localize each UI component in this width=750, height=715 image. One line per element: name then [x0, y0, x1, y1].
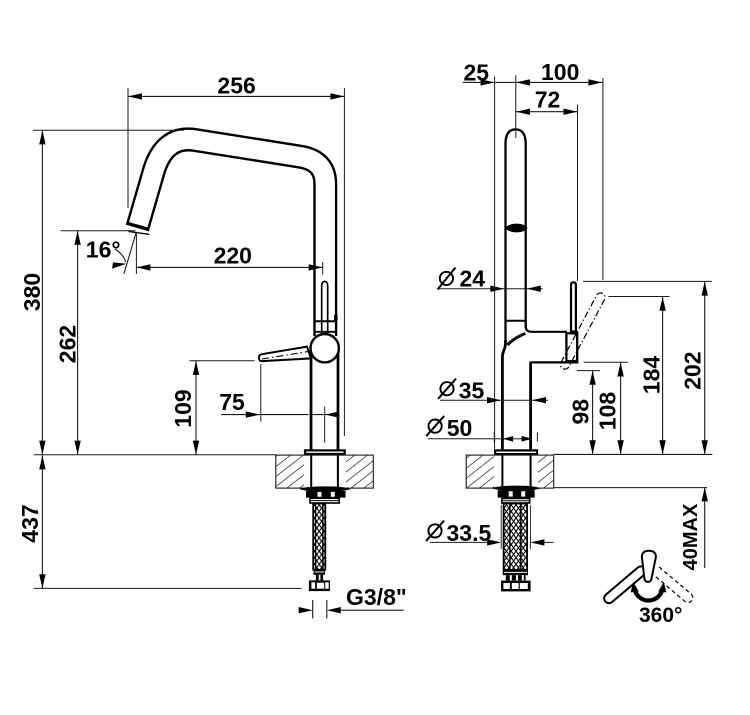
- 360 icon rotation arc: [634, 588, 662, 601]
- spout tube inner white: [138, 139, 325, 336]
- body below counter (side): [501, 455, 503, 487]
- dimension 109: [195, 361, 197, 455]
- handle lever (front view): [259, 347, 311, 362]
- svg-text:109: 109: [170, 389, 196, 427]
- label dia 50: [429, 420, 442, 433]
- spout tube outer (front view): [137, 139, 325, 336]
- dimension 75: [221, 414, 309, 416]
- svg-text:108: 108: [594, 392, 620, 431]
- reference line handle top: [583, 280, 712, 282]
- base flange (side): [495, 450, 537, 454]
- spout tube left wall (side view): [506, 129, 526, 343]
- spout aerator tip line: [129, 231, 150, 234]
- svg-text:202: 202: [680, 351, 706, 389]
- body below counter: [310, 455, 312, 487]
- counter hatch right part: [346, 456, 373, 488]
- solid handle lever (up position): [571, 282, 576, 331]
- tube joint line: [315, 320, 337, 322]
- 360 icon phantom arm: [653, 567, 693, 603]
- reference line phantom top: [609, 296, 670, 298]
- reference line 98: [577, 370, 600, 372]
- bottom hex nut (side): [501, 581, 531, 592]
- svg-text:40MAX: 40MAX: [680, 503, 702, 570]
- handle lever axis dash-dot: [262, 352, 308, 359]
- label dia 24: [440, 272, 453, 285]
- svg-text:24: 24: [460, 266, 486, 292]
- counter reference line left: [34, 454, 276, 456]
- wavy washer: [299, 486, 351, 491]
- angle 16 deg line: [124, 232, 136, 274]
- label dia 33.5: [428, 524, 441, 537]
- counter hatch left part: [276, 456, 304, 488]
- svg-text:G3/8": G3/8": [346, 584, 407, 610]
- dimension 202: [704, 282, 706, 455]
- braided hoses (side): [504, 504, 527, 571]
- dimension G3/8: [312, 600, 314, 618]
- braided hose: [313, 504, 325, 570]
- fitting neck: [316, 575, 323, 581]
- aerator dark band: [506, 224, 528, 233]
- svg-text:380: 380: [19, 273, 45, 311]
- locknut (side): [498, 490, 535, 497]
- locknut: [306, 491, 346, 498]
- hose end fitting (side): [503, 570, 528, 575]
- extension line 72: [577, 105, 579, 281]
- dimension 184: [662, 297, 664, 455]
- bottom hex nut: [309, 580, 330, 591]
- reference line 108: [584, 361, 629, 363]
- svg-text:100: 100: [541, 59, 579, 85]
- extension line 100: [602, 78, 604, 280]
- dimension 98: [592, 371, 594, 454]
- 360 icon knob: [642, 551, 656, 582]
- 360 icon solid arm: [604, 566, 646, 603]
- svg-text:184: 184: [638, 356, 664, 395]
- phantom handle lever (rotated position): [560, 293, 605, 369]
- counter hatch right part (side): [538, 456, 553, 488]
- counter hatch left part (side): [467, 456, 495, 488]
- pull rod inside down tube: [322, 281, 328, 333]
- handle mount block: [566, 333, 577, 361]
- svg-text:256: 256: [217, 73, 255, 99]
- svg-text:16°: 16°: [86, 236, 121, 262]
- label dia 35: [440, 382, 453, 395]
- dimension 380: [41, 130, 43, 454]
- svg-text:25: 25: [464, 59, 490, 85]
- extension line tube centre: [515, 75, 517, 138]
- dimension 108: [620, 363, 622, 455]
- base flange: [305, 450, 345, 454]
- tube end line above ball: [315, 331, 336, 333]
- svg-text:72: 72: [535, 87, 561, 113]
- svg-text:360°: 360°: [639, 604, 682, 627]
- counter surface line right: [554, 453, 713, 455]
- bottom shelf line: [530, 361, 579, 363]
- dimension 256: [128, 95, 344, 97]
- counter slab outline: [276, 455, 374, 488]
- dimension 72: [516, 111, 578, 113]
- counter slab outline (side): [466, 455, 554, 488]
- svg-text:50: 50: [447, 415, 473, 441]
- wavy washer (side): [492, 486, 541, 491]
- svg-text:75: 75: [219, 389, 245, 415]
- spacer ring: [310, 498, 339, 503]
- body column right wall: [337, 348, 340, 450]
- dimension 262: [77, 231, 79, 455]
- spacer ring (side): [502, 498, 530, 503]
- top shelf to handle block: [526, 327, 567, 332]
- dimension 220: [136, 266, 322, 268]
- counter bottom line right: [554, 487, 707, 489]
- extension line 25 (front face): [494, 77, 496, 450]
- LEFT VIEW: [17, 73, 407, 619]
- svg-text:262: 262: [54, 325, 80, 363]
- svg-text:437: 437: [17, 504, 43, 542]
- RIGHT VIEW: [426, 59, 712, 627]
- body front curve and wall: [502, 340, 505, 449]
- neck shoulder chamfer: [508, 334, 526, 346]
- dimension 25 / 100 line: [463, 81, 603, 83]
- dimension 437: [41, 455, 43, 588]
- body column left wall: [310, 348, 313, 450]
- fitting neck (side): [506, 575, 526, 580]
- angle 16 deg arc arrow: [115, 249, 126, 262]
- body rear wall: [529, 362, 532, 449]
- tube joint line (side): [505, 320, 527, 322]
- svg-text:98: 98: [568, 399, 594, 425]
- clip on right wall: [334, 315, 338, 321]
- mixer ball joint: [311, 334, 339, 362]
- svg-text:220: 220: [214, 242, 252, 268]
- hose end fitting: [314, 570, 326, 575]
- dimension 40MAX: [704, 487, 706, 568]
